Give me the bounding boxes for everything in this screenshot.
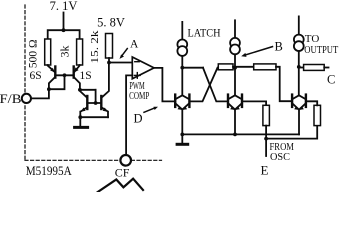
node emitter rail — [78, 115, 82, 119]
svg-text:M51995A: M51995A — [26, 164, 72, 178]
wire rail top — [48, 30, 80, 39]
node mirror input — [78, 88, 82, 92]
node Qa-Qb bases — [94, 101, 98, 105]
transistor 1S emitter wire — [74, 65, 79, 72]
wire latch node to cross A — [182, 67, 203, 69]
transistor Qb base bar — [100, 96, 102, 109]
transistor 6S emitter arrow — [50, 68, 55, 73]
transistor Qb collector — [102, 63, 109, 98]
svg-text:LATCH: LATCH — [188, 28, 221, 40]
transistor R bars — [227, 95, 229, 107]
svg-text:5. 8V: 5. 8V — [97, 16, 125, 30]
wire C row left stub — [299, 67, 304, 69]
transistor L bars — [174, 95, 176, 107]
TO OUTPUT source wire top — [298, 16, 300, 34]
node base join — [63, 73, 67, 77]
node F/B junction — [47, 87, 51, 91]
resistor latch cross — [218, 64, 233, 70]
wire base join Qa-Qb — [87, 102, 101, 104]
transistor 1S emitter arrow — [74, 67, 79, 72]
resistor R1 vertical — [263, 105, 270, 125]
transistor 6S base bar — [54, 67, 56, 78]
svg-text:15. 2k: 15. 2k — [89, 30, 101, 64]
wire resistor to B node — [233, 66, 235, 68]
node from-osc — [264, 137, 268, 141]
IC boundary dashed left — [24, 5, 26, 160]
terminal F/B — [22, 94, 31, 103]
terminal CF — [120, 155, 131, 166]
transistor Qb emitter — [102, 107, 108, 117]
transistor L dual collector diagonals — [175, 95, 189, 99]
transistor 6S emitter wire — [48, 65, 55, 72]
node B — [233, 66, 237, 70]
transistor 6S collector — [49, 77, 55, 89]
wire R1 bottom to osc node — [265, 126, 267, 139]
node junction 7.1V — [62, 28, 66, 32]
ground rail — [182, 133, 299, 135]
op-amp U1 PWM comparator triangle — [132, 57, 154, 79]
LATCH current source wire top — [181, 22, 183, 40]
wire R2 top to T right base — [306, 101, 317, 105]
node rail L — [180, 133, 184, 137]
node rail R — [233, 133, 237, 137]
B current source wire top — [234, 20, 236, 37]
wire node A to comparator — [109, 62, 132, 64]
ground bar — [177, 143, 188, 146]
svg-text:1S: 1S — [80, 70, 92, 82]
transistor 1S base bar — [72, 67, 74, 78]
transistor Qa collector — [80, 91, 87, 98]
svg-text:E: E — [261, 162, 269, 177]
resistor R2 vertical — [314, 105, 321, 125]
wire bases down to F/B node — [49, 75, 65, 89]
wire B source down — [234, 55, 236, 96]
wire 1S collector to mirror node — [80, 89, 96, 91]
svg-text:CF: CF — [115, 166, 130, 180]
wire R emitter down — [234, 110, 236, 135]
wire to F/B pin — [31, 89, 49, 98]
node A — [107, 61, 111, 65]
transistor R dual collector diagonals — [228, 95, 242, 99]
transistor 1S collector — [74, 77, 80, 90]
transistor Qa emitter — [80, 107, 87, 117]
ground stub left mirror — [79, 117, 81, 126]
resistor 3k — [77, 39, 83, 65]
wire FROM OSC stub — [265, 139, 267, 156]
transistor L emitters — [175, 103, 189, 109]
wire emitter rail — [80, 116, 108, 118]
wire cross diagonal B — [189, 68, 217, 102]
transistor T emitters — [292, 103, 306, 109]
resistor 15.2k — [106, 34, 113, 59]
svg-text:500 Ω: 500 Ω — [28, 39, 40, 68]
transistor R emitters — [228, 103, 242, 109]
arrow A pointer — [122, 49, 128, 57]
svg-text:OUTPUT: OUTPUT — [304, 44, 338, 56]
wire comparator output — [154, 68, 175, 102]
transistor Qa emitter arrow — [81, 108, 86, 112]
arrow D pointer — [144, 108, 155, 112]
node latch left — [180, 66, 184, 70]
wire base join 6S-1S — [55, 74, 73, 76]
svg-text:7. 1V: 7. 1V — [50, 0, 78, 13]
node C row — [297, 65, 301, 69]
svg-text:3k: 3k — [58, 46, 72, 58]
wire B row right — [235, 66, 254, 68]
plus input glyph — [135, 74, 141, 76]
svg-text:F/B: F/B — [0, 92, 22, 106]
transistor Qa base bar — [86, 96, 88, 109]
resistor C row — [304, 65, 325, 71]
ground stub — [181, 134, 183, 142]
svg-text:6S: 6S — [30, 70, 42, 82]
current source LATCH — [177, 40, 187, 50]
transistor Qb emitter arrow — [103, 108, 108, 112]
wire R right base to resistor — [242, 101, 266, 105]
wire mirror node down to bases — [95, 90, 97, 103]
wire C stub — [324, 67, 328, 69]
wire T emitter down — [298, 110, 300, 135]
ground bar left mirror — [75, 126, 88, 129]
svg-text:C: C — [327, 73, 335, 87]
sawtooth waveform — [98, 179, 143, 192]
svg-text:COMP: COMP — [129, 91, 149, 102]
current source B — [230, 38, 240, 48]
svg-text:D: D — [134, 112, 143, 126]
arrow B pointer — [246, 47, 273, 55]
wire 7.1V down — [63, 13, 65, 31]
transistor T dual collector diagonals — [292, 95, 306, 99]
wire L emitter down — [181, 110, 183, 135]
current source TO OUTPUT — [294, 35, 304, 45]
svg-text:A: A — [130, 39, 139, 51]
wire 15.2k to node A — [108, 58, 110, 63]
resistor 500ohm — [45, 39, 51, 65]
IC boundary dashed bottom — [25, 159, 162, 161]
minus input glyph — [135, 61, 139, 63]
transistor T bars — [291, 95, 293, 107]
wire TO source down — [298, 51, 300, 95]
wire cross diagonal A — [203, 68, 228, 102]
svg-text:B: B — [275, 40, 283, 54]
wire osc rail right — [266, 126, 317, 139]
svg-text:OSC: OSC — [270, 152, 290, 163]
wire LATCH source down — [181, 56, 183, 95]
wire B row to T base — [276, 67, 292, 101]
resistor B row — [254, 64, 276, 70]
wire plus input to CF line — [126, 75, 132, 155]
